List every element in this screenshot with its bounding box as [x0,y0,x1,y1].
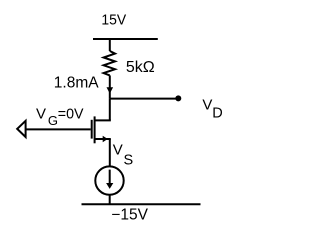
resistor R 5kOhm zigzag [104,51,115,75]
svg-text:D: D [212,105,222,121]
svg-text:S: S [124,152,134,168]
transistor Q1 channel bar [94,116,96,143]
svg-text:1.8mA: 1.8mA [54,74,99,91]
label -15V [111,206,148,223]
transistor Q1 gate bar [91,120,93,139]
wire node down to transistor drain [109,99,111,121]
source arrowhead [103,136,108,142]
-15V supply rail [82,203,201,205]
svg-text:G: G [48,113,58,128]
wire resistor to drain node [109,75,111,98]
svg-text:15V: 15V [101,12,126,29]
transistor Q1 drain lead [95,120,110,121]
transistor Q1 source lead [95,139,110,140]
svg-text:=0V: =0V [58,106,84,122]
current direction arrowhead 1.8mA [107,87,114,93]
svg-text:5kΩ: 5kΩ [126,59,155,76]
gate wire [26,128,91,130]
svg-text:V: V [202,96,212,113]
svg-text:V: V [36,105,46,122]
current source I circle [95,166,123,194]
node VD dot [175,95,181,101]
wire rail to resistor [109,39,111,51]
svg-text:V: V [113,142,123,159]
wire drain node to VD terminal [110,98,179,100]
wire current source to negative rail [109,195,111,205]
current source arrowhead [106,183,113,189]
+15V supply rail [93,38,158,40]
svg-text:−15V: −15V [111,206,148,223]
current source arrow shaft [109,170,111,184]
input terminal arrow VG [17,121,25,137]
label 15V [101,12,126,29]
wire source to current source [109,139,111,167]
